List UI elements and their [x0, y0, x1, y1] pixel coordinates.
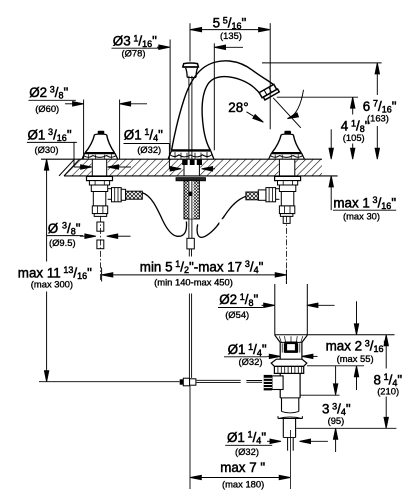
svg-text:(105): (105): [343, 132, 365, 143]
svg-text:(max 180): (max 180): [222, 479, 264, 490]
svg-text:(max 55): (max 55): [337, 353, 374, 364]
svg-text:(max 300): (max 300): [31, 279, 73, 290]
svg-text:(135): (135): [220, 30, 242, 41]
svg-text:(Ø32): (Ø32): [235, 446, 259, 457]
svg-text:(max 30): (max 30): [343, 211, 380, 222]
svg-text:(Ø54): (Ø54): [225, 309, 249, 320]
svg-text:min 5 1/2"-max 17 3/4": min 5 1/2"-max 17 3/4": [140, 259, 264, 275]
svg-text:(210): (210): [377, 386, 399, 397]
svg-text:Ø1 1/4": Ø1 1/4": [124, 127, 163, 143]
svg-text:Ø2 3/8": Ø2 3/8": [29, 85, 68, 101]
svg-text:(Ø32): (Ø32): [239, 356, 263, 367]
svg-text:max 7 ": max 7 ": [220, 460, 265, 475]
svg-text:(95): (95): [328, 415, 345, 426]
svg-text:(Ø60): (Ø60): [35, 103, 59, 114]
svg-text:(Ø32): (Ø32): [137, 144, 161, 155]
svg-text:(Ø78): (Ø78): [122, 48, 146, 59]
svg-text:(Ø30): (Ø30): [35, 144, 59, 155]
svg-text:Ø1 3/16": Ø1 3/16": [28, 127, 72, 143]
svg-text:Ø 3/8": Ø 3/8": [48, 221, 81, 237]
svg-text:max 1 3/16": max 1 3/16": [333, 195, 396, 211]
svg-text:Ø2 1/8": Ø2 1/8": [219, 292, 258, 308]
svg-text:28°: 28°: [228, 100, 248, 115]
svg-text:(163): (163): [367, 113, 389, 124]
svg-text:(min 140-max 450): (min 140-max 450): [154, 276, 233, 287]
svg-text:Ø1 1/4": Ø1 1/4": [227, 430, 266, 446]
svg-text:(Ø9.5): (Ø9.5): [49, 237, 76, 248]
